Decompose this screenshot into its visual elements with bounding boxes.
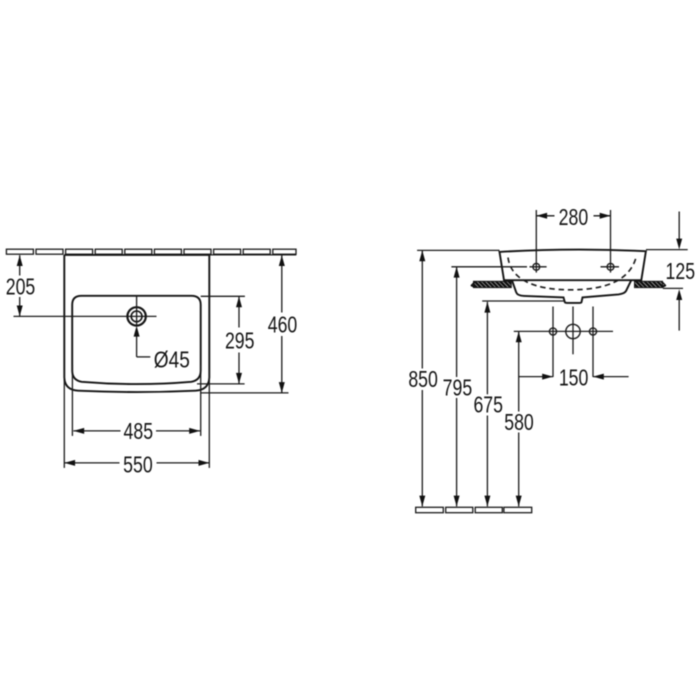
svg-text:150: 150 [559,365,589,391]
svg-text:675: 675 [473,392,503,418]
svg-text:580: 580 [504,410,534,436]
svg-text:205: 205 [6,274,36,300]
svg-text:280: 280 [559,205,589,231]
svg-text:125: 125 [666,259,696,285]
svg-text:485: 485 [124,419,154,445]
svg-text:550: 550 [123,452,153,478]
svg-text:850: 850 [408,367,438,393]
svg-text:795: 795 [443,375,473,401]
svg-text:460: 460 [268,312,298,338]
svg-text:Ø45: Ø45 [154,348,190,373]
svg-text:295: 295 [225,328,255,354]
